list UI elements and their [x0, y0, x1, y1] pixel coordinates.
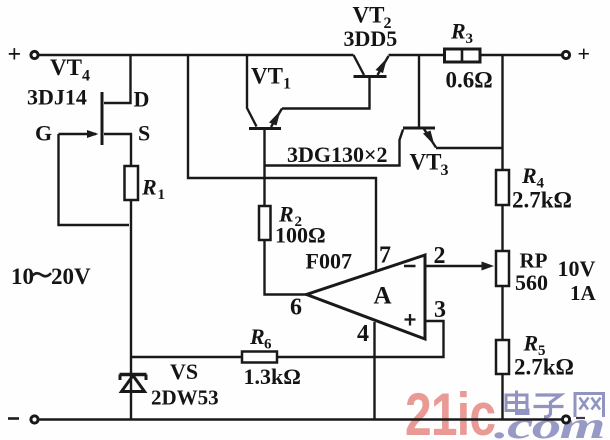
label 3DG130x2 [287, 142, 388, 167]
svg-text:560: 560 [515, 270, 548, 295]
zener diode VS [120, 375, 147, 392]
label - output [576, 417, 585, 419]
watermark chinese char dian [505, 391, 528, 414]
wire VT1 base to R2 [263, 129, 265, 207]
transistor VT2 base bar [354, 75, 387, 78]
svg-text:100Ω: 100Ω [275, 223, 326, 248]
svg-text:3: 3 [434, 297, 446, 323]
wire VT1 emitter to VT2 base [282, 78, 370, 109]
svg-text:0.6Ω: 0.6Ω [446, 68, 493, 93]
label 2.7k ohm R5 [514, 355, 574, 380]
wire VT4 source lead [104, 134, 131, 166]
svg-text:2.7kΩ: 2.7kΩ [514, 355, 574, 380]
wire right column from R3 junction down [501, 55, 503, 420]
label D pin [134, 87, 150, 112]
svg-text:R: R [141, 175, 157, 200]
input - terminal [31, 416, 38, 423]
svg-text:D: D [134, 87, 150, 112]
svg-text:7: 7 [379, 243, 391, 269]
svg-text:2: 2 [434, 243, 446, 269]
svg-text:1: 1 [283, 76, 291, 93]
svg-text:R: R [450, 19, 466, 44]
transistor VT1 collector lead [247, 55, 257, 127]
transistor VT4 channel bar [101, 92, 104, 145]
resistor R3 [445, 49, 481, 62]
label R4 [521, 163, 545, 192]
label R6 [249, 324, 272, 353]
resistor R5 [496, 340, 509, 374]
wire top rail right section [389, 54, 563, 56]
svg-text:10: 10 [11, 264, 34, 289]
svg-text:G: G [35, 121, 52, 146]
transistor VT3 base bar [403, 127, 435, 130]
label R5 [523, 331, 546, 360]
label pin 7 [379, 243, 391, 269]
potentiometer RP [496, 251, 509, 286]
output + terminal [562, 51, 569, 58]
label F007 [306, 249, 352, 274]
svg-text:R: R [523, 331, 539, 356]
WATERMARK [405, 381, 604, 440]
label A op-amp [374, 283, 392, 310]
svg-text:21ic: 21ic [405, 381, 495, 440]
svg-text:6: 6 [290, 295, 302, 321]
svg-text:1.3kΩ: 1.3kΩ [244, 364, 301, 389]
label - input [8, 417, 19, 420]
svg-text:VT: VT [251, 64, 283, 89]
label 2.7k ohm R4 [512, 188, 572, 213]
svg-text:1A: 1A [570, 281, 597, 305]
svg-text:VT: VT [50, 55, 82, 80]
wire top rail left section [39, 54, 354, 56]
label 560 [515, 270, 548, 295]
svg-text:20V: 20V [51, 264, 91, 289]
wire VT3 emitter to right column [436, 147, 503, 149]
transistor VT2 collector lead [354, 55, 365, 75]
label VT4 [50, 55, 90, 85]
op-amp U1 F007 triangle [307, 255, 426, 339]
transistor VT2 emitter with arrow [376, 56, 389, 75]
svg-text:2.7kΩ: 2.7kΩ [512, 188, 572, 213]
svg-text:RP: RP [520, 249, 548, 273]
transistor VT3 collector lead [418, 55, 420, 127]
svg-text:.com: .com [494, 404, 604, 440]
svg-text:3DG130×2: 3DG130×2 [287, 142, 388, 167]
label G pin [35, 121, 52, 146]
wire op-amp pin 2 to RP wiper with arrow [425, 262, 494, 271]
wire op-amp pin 4 to bottom rail [373, 322, 375, 420]
svg-text:1: 1 [158, 187, 166, 203]
wire VT4 drain lead [104, 55, 131, 103]
label VS [170, 359, 198, 384]
label 2DW53 [151, 386, 219, 410]
label 0.6 ohm [446, 68, 493, 93]
svg-text:R: R [249, 324, 265, 349]
label S pin [138, 121, 150, 146]
svg-text:3: 3 [441, 162, 449, 179]
label pin 4 [357, 321, 369, 347]
wire VT3 base to node [265, 130, 404, 166]
svg-text:3DD5: 3DD5 [344, 26, 398, 51]
label pin 2 [434, 243, 446, 269]
label VT3 [410, 150, 449, 180]
svg-text:10V: 10V [558, 256, 596, 281]
wire bottom rail [40, 418, 563, 420]
svg-text:VT: VT [410, 150, 442, 175]
svg-text:+: + [578, 41, 591, 66]
label R3 [450, 19, 473, 48]
resistor R4 [496, 170, 509, 205]
label 10V [558, 256, 596, 281]
label 1.3k ohm [244, 364, 301, 389]
resistor R6 [242, 352, 277, 363]
svg-text:S: S [138, 121, 150, 146]
wire VT4 gate lead with arrow [59, 130, 99, 138]
svg-text:F007: F007 [306, 249, 352, 274]
svg-text:3DJ14: 3DJ14 [27, 85, 87, 110]
output - terminal [562, 416, 569, 423]
label VT1 [251, 64, 291, 93]
svg-text:A: A [374, 283, 392, 310]
transistor VT3 emitter with arrow [423, 129, 436, 148]
svg-text:+: + [8, 42, 22, 68]
op-amp minus input sign [404, 265, 416, 268]
label R1 [141, 175, 165, 204]
svg-text:4: 4 [357, 321, 369, 347]
wire R6 left to zener node [131, 356, 242, 358]
svg-text:4: 4 [82, 68, 90, 85]
watermark chinese char wang [575, 394, 604, 418]
label 10~20V [11, 264, 91, 289]
svg-text:2DW53: 2DW53 [151, 386, 219, 410]
wire R1 bottom to zener node [130, 200, 132, 420]
transistor VT1 base bar [249, 127, 281, 130]
label + output [578, 41, 591, 66]
label 3DD5 [344, 26, 398, 51]
resistor R1 [125, 166, 139, 200]
svg-text:6: 6 [264, 337, 272, 353]
watermark 21ic logo text [405, 381, 495, 440]
watermark chinese char zi [534, 395, 564, 417]
label 1A [570, 281, 597, 305]
wire op-amp V+ supply from top rail to pin 7 [188, 55, 376, 272]
label + input [8, 42, 22, 68]
label R2 [278, 202, 302, 231]
svg-text:VT: VT [353, 3, 385, 28]
svg-text:3: 3 [466, 31, 474, 47]
watermark .com script text [494, 404, 604, 440]
label 3DJ14 [27, 85, 87, 110]
label RP [520, 249, 548, 273]
resistor R2 [259, 206, 271, 240]
label 100 ohm [275, 223, 326, 248]
transistor VT1 emitter with arrow [269, 109, 282, 128]
wire R2 bottom to op-amp pin 6 [265, 240, 307, 295]
label pin 3 [434, 297, 446, 323]
svg-text:VS: VS [170, 359, 198, 384]
input + terminal [31, 51, 38, 58]
svg-text:R: R [521, 163, 537, 188]
label pin 6 [290, 295, 302, 321]
op-amp plus input sign [405, 314, 416, 326]
label VT2 [353, 3, 392, 33]
wire gate loop to R1 bottom [59, 134, 130, 225]
wire op-amp pin 3 loop to R6 [277, 321, 444, 357]
